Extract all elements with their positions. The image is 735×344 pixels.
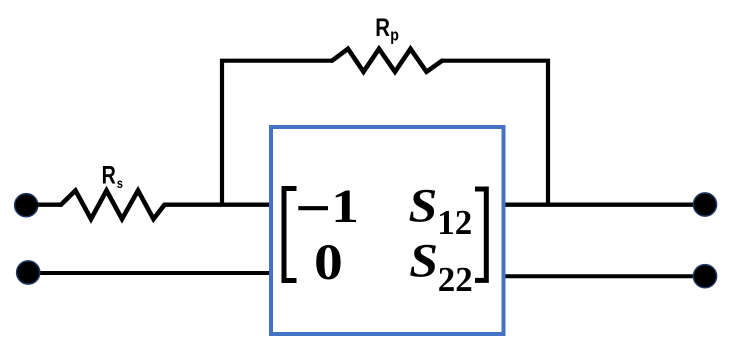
svg-text:S: S bbox=[409, 233, 438, 287]
svg-text:s: s bbox=[117, 176, 123, 191]
wire feedback right riser bbox=[442, 61, 548, 205]
svg-text:R: R bbox=[375, 13, 390, 41]
terminal dot port 2 plus bbox=[693, 193, 716, 216]
svg-text:22: 22 bbox=[438, 260, 473, 299]
matrix entry 0 bbox=[314, 234, 343, 290]
matrix entry 1 bbox=[331, 180, 359, 233]
wire box to port2 minus bbox=[503, 274, 705, 278]
svg-text:R: R bbox=[102, 161, 116, 189]
svg-text:12: 12 bbox=[437, 203, 472, 242]
resistor Rs bbox=[61, 191, 165, 220]
terminal dot port 1 minus bbox=[17, 261, 40, 284]
matrix left bracket bbox=[284, 189, 297, 281]
matrix entry minus sign of -1 bbox=[298, 206, 328, 210]
label Rp bbox=[375, 13, 390, 41]
terminal dot port 1 plus bbox=[15, 194, 38, 217]
resistor Rp bbox=[332, 49, 442, 72]
matrix entry S22 bbox=[409, 233, 438, 287]
matrix entry S12 bbox=[409, 178, 438, 232]
svg-text:p: p bbox=[390, 26, 399, 44]
wire Rs to box bbox=[164, 202, 271, 206]
wire port1 minus to box bottom bbox=[28, 271, 271, 275]
svg-text:S: S bbox=[409, 178, 438, 232]
svg-text:0: 0 bbox=[314, 234, 343, 290]
matrix right bracket bbox=[475, 189, 486, 280]
wire port1 plus to Rs bbox=[26, 202, 62, 206]
svg-text:1: 1 bbox=[331, 180, 359, 233]
two-port network box bbox=[271, 127, 504, 334]
label Rs bbox=[102, 161, 116, 189]
wire box to port2 top bbox=[503, 202, 705, 206]
wire feedback left riser bbox=[222, 61, 332, 205]
terminal dot port 2 minus bbox=[693, 265, 716, 288]
